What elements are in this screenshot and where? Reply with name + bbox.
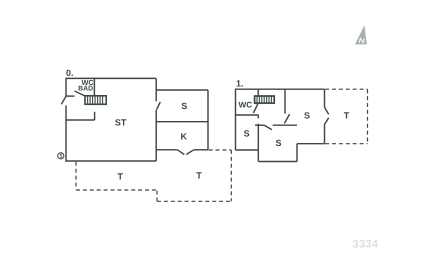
svg-text:S: S bbox=[244, 128, 250, 138]
svg-text:ST: ST bbox=[115, 118, 127, 128]
wall: plan0 top bbox=[65, 77, 156, 79]
wall: plan1 bottom left bbox=[236, 149, 259, 151]
door notch: plan1 right 2 bbox=[325, 118, 329, 125]
wall: room S center top B bbox=[273, 124, 297, 126]
svg-text:WC: WC bbox=[238, 100, 252, 109]
door leaf: hall1 bbox=[284, 114, 289, 123]
svg-text:T: T bbox=[118, 171, 124, 181]
svg-text:S: S bbox=[181, 101, 187, 111]
wall: annex right bbox=[207, 90, 209, 150]
wall: plan0 bottom bbox=[65, 160, 156, 162]
door leaf: entrance plan0 bbox=[61, 96, 66, 104]
svg-text:S: S bbox=[275, 138, 281, 148]
terrace T1 dashed bottom bbox=[76, 189, 157, 191]
door notch: plan1 right 1 bbox=[325, 107, 329, 114]
terrace T2 dashed bottom bbox=[157, 200, 231, 202]
door notch: annex terrace door 2 bbox=[186, 150, 193, 155]
wall: WC bottom stub bbox=[66, 95, 75, 97]
wall: WC right bbox=[93, 78, 95, 95]
wall: annex top bbox=[156, 89, 208, 91]
terrace T2 dashed top bbox=[209, 149, 232, 151]
terrace1 dashed right bbox=[367, 89, 369, 144]
door leaf: stairs plan1 bbox=[253, 103, 258, 113]
wall: hall stub vertical bbox=[94, 112, 96, 120]
wall: ST right upper bbox=[155, 78, 157, 101]
svg-text:3334: 3334 bbox=[353, 239, 379, 251]
wall: room S center right bbox=[296, 144, 298, 162]
stairs plan1 bbox=[255, 96, 275, 103]
wall: ST right lower bbox=[155, 110, 157, 161]
door notch: annex terrace door bbox=[177, 150, 184, 155]
wall: plan1 right lower bbox=[324, 124, 326, 143]
svg-text:BAD: BAD bbox=[78, 85, 93, 92]
wall: plan1 left bbox=[235, 89, 237, 150]
stairs plan0 bbox=[85, 96, 106, 105]
svg-text:T: T bbox=[344, 111, 350, 121]
terrace1 dashed top bbox=[325, 88, 367, 90]
wall: annex bottom left bbox=[156, 149, 177, 151]
svg-text:T: T bbox=[196, 171, 202, 181]
terrace1 dashed bottom bbox=[325, 143, 367, 145]
svg-text:K: K bbox=[180, 131, 187, 141]
door leaf: BAD bbox=[75, 91, 85, 96]
wall: hall1 divider bbox=[284, 89, 286, 114]
wall: room S center top A bbox=[255, 124, 264, 126]
section mark circle bbox=[58, 153, 64, 159]
wall: WC1 bottom bbox=[236, 114, 259, 116]
door leaf: ST to annex bbox=[157, 102, 161, 109]
wall: hall bottom bbox=[66, 119, 95, 121]
svg-text:1.: 1. bbox=[236, 79, 244, 89]
wall: plan0 left lower bbox=[65, 105, 67, 161]
wall: plan1 top bbox=[235, 88, 325, 90]
wall: annex bottom right bbox=[194, 149, 208, 151]
terrace T1 dashed left bbox=[75, 162, 77, 190]
terrace T2 dashed left bbox=[156, 191, 158, 202]
wall: plan1 right upper bbox=[324, 89, 326, 107]
wall: plan1 bottom right bbox=[297, 143, 325, 145]
svg-text:0.: 0. bbox=[66, 68, 74, 78]
wall: WC1 bottom stub bbox=[257, 115, 259, 118]
wall: room S center left bbox=[257, 124, 259, 162]
compass north arrow bbox=[355, 25, 367, 44]
terrace T2 dashed right bbox=[230, 150, 232, 201]
wall: WC1 right upper bbox=[257, 89, 259, 96]
wall: room S center bottom bbox=[258, 161, 297, 163]
wall: S/K divider bbox=[156, 121, 208, 123]
svg-text:S: S bbox=[304, 111, 310, 121]
wall: plan0 left upper bbox=[65, 78, 67, 96]
door leaf: room S center bbox=[264, 125, 272, 130]
